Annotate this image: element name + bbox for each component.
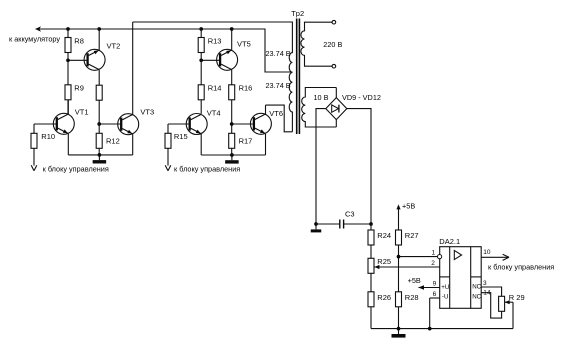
svg-text:NC: NC — [472, 284, 481, 291]
svg-text:R9: R9 — [74, 84, 84, 93]
svg-text:23.74 В: 23.74 В — [266, 81, 291, 90]
svg-text:R17: R17 — [239, 136, 253, 145]
svg-text:10: 10 — [483, 249, 491, 256]
svg-text:+5В: +5В — [408, 276, 421, 285]
svg-text:R28: R28 — [405, 293, 419, 302]
svg-text:9: 9 — [433, 280, 437, 287]
svg-text:10 В: 10 В — [314, 93, 329, 102]
svg-text:R15: R15 — [174, 132, 188, 141]
svg-text:1: 1 — [432, 250, 436, 257]
svg-text:23.74 В: 23.74 В — [266, 49, 291, 58]
svg-text:14: 14 — [483, 289, 491, 296]
svg-text:+U: +U — [441, 284, 449, 291]
svg-text:C3: C3 — [345, 210, 355, 219]
svg-text:NC: NC — [472, 293, 481, 300]
svg-text:R 29: R 29 — [509, 293, 525, 302]
svg-text:6: 6 — [433, 291, 437, 298]
svg-text:VT4: VT4 — [207, 108, 221, 117]
svg-text:R12: R12 — [106, 137, 120, 146]
svg-text:R10: R10 — [41, 132, 55, 141]
svg-text:-U: -U — [442, 294, 449, 301]
svg-text:DA2.1: DA2.1 — [439, 237, 460, 246]
svg-text:VT5: VT5 — [237, 40, 251, 49]
svg-text:к блоку управления: к блоку управления — [174, 165, 240, 174]
svg-text:R26: R26 — [377, 293, 391, 302]
svg-text:Tp2: Tp2 — [291, 9, 304, 18]
svg-text:R27: R27 — [405, 231, 419, 240]
svg-text:VT2: VT2 — [107, 42, 121, 51]
svg-text:VT3: VT3 — [140, 107, 154, 116]
svg-text:к аккумулятору: к аккумулятору — [9, 35, 60, 44]
svg-text:R8: R8 — [74, 36, 84, 45]
svg-text:220 В: 220 В — [323, 40, 342, 49]
svg-text:R24: R24 — [377, 231, 391, 240]
svg-text:2: 2 — [431, 260, 435, 267]
svg-text:к блоку управления: к блоку управления — [488, 263, 554, 272]
svg-text:VT1: VT1 — [75, 108, 89, 117]
svg-text:+5В: +5В — [402, 201, 415, 210]
svg-text:R25: R25 — [377, 257, 391, 266]
svg-text:к блоку управления: к блоку управления — [43, 164, 109, 173]
svg-text:VD9 - VD12: VD9 - VD12 — [342, 93, 381, 102]
svg-text:3: 3 — [483, 280, 487, 287]
svg-text:R16: R16 — [239, 84, 253, 93]
svg-text:R13: R13 — [208, 36, 222, 45]
svg-text:VT6: VT6 — [269, 109, 283, 118]
svg-text:R14: R14 — [208, 84, 222, 93]
